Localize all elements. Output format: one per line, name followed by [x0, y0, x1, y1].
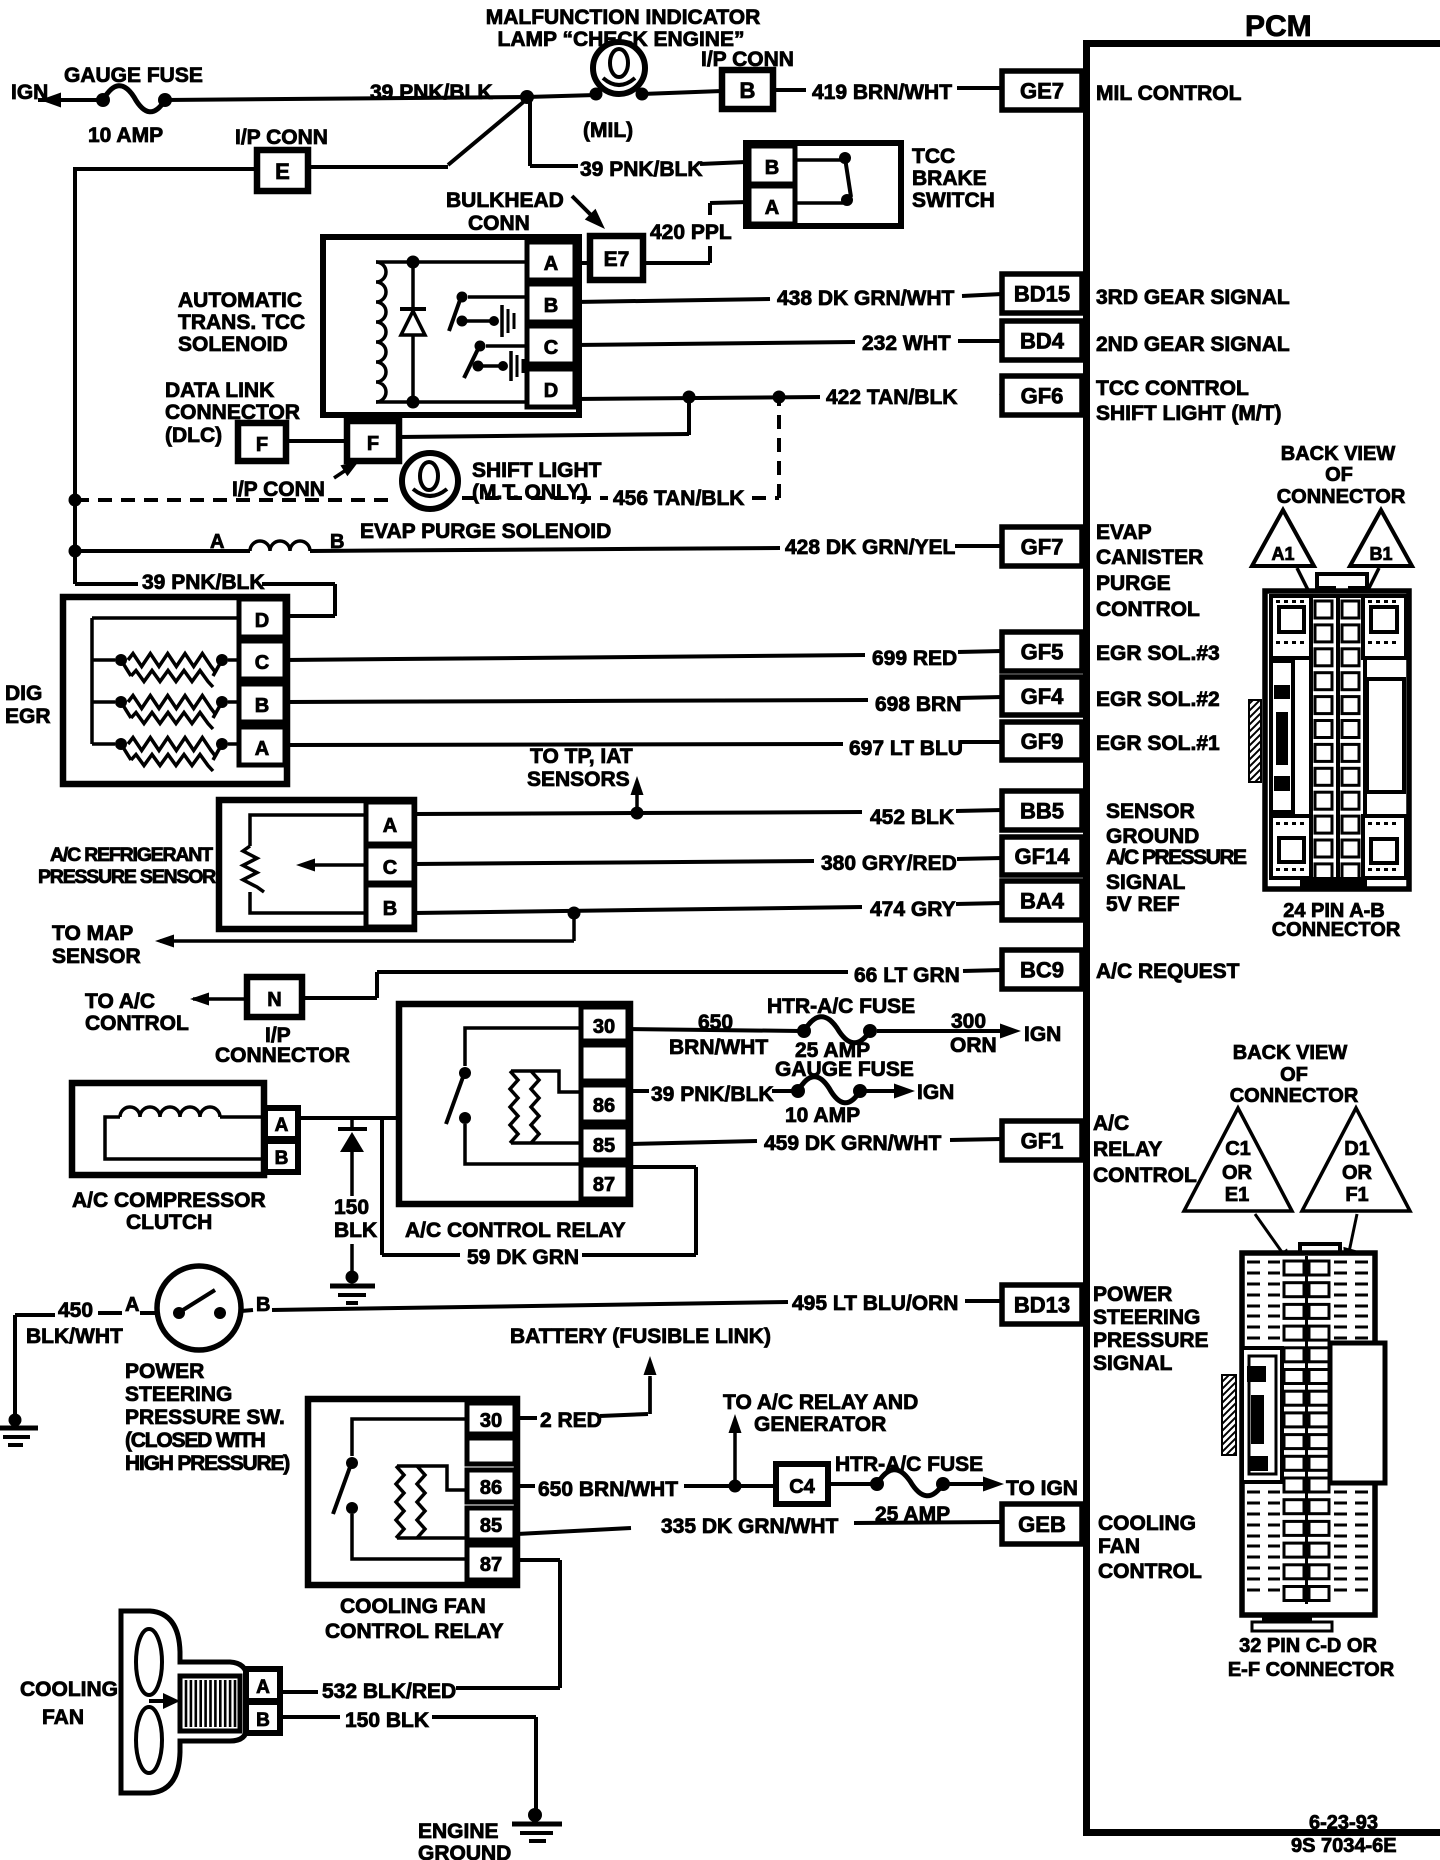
svg-text:PRESSURE SENSOR: PRESSURE SENSOR: [38, 866, 216, 888]
node junction 452 to TP IAT sensors: [631, 807, 644, 820]
svg-text:3RD GEAR SIGNAL: 3RD GEAR SIGNAL: [1096, 286, 1290, 309]
wire junction down to TCC brake switch branch: [530, 99, 578, 166]
svg-text:B: B: [275, 1148, 289, 1169]
coil solenoid winding: [376, 262, 386, 402]
svg-text:HIGH PRESSURE): HIGH PRESSURE): [125, 1452, 289, 1475]
svg-text:BD15: BD15: [1014, 282, 1070, 307]
svg-text:DATA LINK: DATA LINK: [165, 379, 274, 402]
label BULKHEAD CONN with arrow: [446, 189, 605, 235]
node junction left rail / 456 dashed: [69, 494, 82, 507]
svg-text:699 RED: 699 RED: [872, 647, 957, 670]
fuse HTR-A/C FUSE 25 AMP (second): [828, 1453, 983, 1526]
arrow to IGN (gauge fuse): [866, 1081, 954, 1104]
svg-text:F: F: [367, 433, 379, 455]
svg-text:B1: B1: [1369, 544, 1392, 564]
svg-text:335 DK GRN/WHT: 335 DK GRN/WHT: [661, 1515, 839, 1538]
diode solenoid clamp diode: [400, 262, 426, 402]
solenoid AUTOMATIC TRANS. TCC SOLENOID: [178, 237, 579, 415]
wire compressor clutch A to relay: [298, 1116, 402, 1120]
svg-text:E1: E1: [1225, 1184, 1249, 1206]
svg-text:TCC CONTROL: TCC CONTROL: [1096, 377, 1249, 400]
svg-text:I/P CONN: I/P CONN: [235, 126, 328, 149]
svg-text:GEB: GEB: [1018, 1512, 1066, 1537]
svg-text:COOLING: COOLING: [20, 1678, 118, 1701]
svg-text:A/C COMPRESSOR: A/C COMPRESSOR: [72, 1189, 266, 1212]
svg-text:30: 30: [593, 1016, 615, 1038]
diode compressor clutch diode: [334, 1118, 377, 1274]
label COOLING FAN CONTROL: [1098, 1512, 1202, 1583]
svg-text:698 BRN: 698 BRN: [875, 693, 961, 716]
node D1/F1 callout triangle: [1302, 1108, 1410, 1211]
wire 650 BRN/WHT relay 30 to HTR-A/C fuse: [628, 1011, 800, 1059]
svg-text:SHIFT LIGHT: SHIFT LIGHT: [472, 459, 602, 482]
node A1 callout triangle: [1252, 510, 1314, 566]
svg-text:TO IGN: TO IGN: [1006, 1477, 1078, 1500]
wire 650 BRN/WHT relay 86 to C4: [517, 1478, 776, 1501]
svg-text:TO MAP: TO MAP: [52, 922, 133, 945]
svg-text:BULKHEAD: BULKHEAD: [446, 189, 564, 212]
svg-text:GF6: GF6: [1021, 384, 1064, 409]
svg-text:GROUND: GROUND: [418, 1842, 511, 1860]
wire 335 DK GRN/WHT relay 85 to GEB: [517, 1515, 1002, 1538]
svg-text:A/C: A/C: [1093, 1112, 1129, 1135]
wire 495 LT BLU/ORN switch B to BD13: [241, 1292, 1002, 1315]
PCM pin GEB: [1002, 1504, 1082, 1544]
label POWER STEERING PRESSURE SIGNAL: [1093, 1283, 1209, 1375]
relay A/C CONTROL RELAY: [399, 1004, 630, 1242]
svg-text:CLUTCH: CLUTCH: [126, 1211, 212, 1234]
svg-text:B: B: [544, 295, 558, 317]
component DIG EGR assembly: [5, 597, 287, 784]
svg-text:B: B: [256, 1710, 270, 1731]
svg-text:422 TAN/BLK: 422 TAN/BLK: [826, 386, 957, 409]
svg-text:85: 85: [480, 1515, 502, 1537]
node junction 650 to A/C relay and generator: [729, 1480, 742, 1493]
svg-text:GE7: GE7: [1020, 79, 1064, 104]
svg-text:BACK VIEW: BACK VIEW: [1233, 1042, 1348, 1064]
svg-text:CANISTER: CANISTER: [1096, 546, 1203, 569]
svg-text:CONTROL RELAY: CONTROL RELAY: [325, 1620, 504, 1643]
svg-text:EVAP: EVAP: [1096, 521, 1152, 544]
svg-text:438 DK GRN/WHT: 438 DK GRN/WHT: [777, 287, 955, 310]
wire 420 PPL TCC brake switch A to E7: [643, 202, 749, 263]
PCM pin BD13: [1002, 1285, 1082, 1324]
svg-text:TO A/C: TO A/C: [85, 990, 155, 1013]
svg-text:CONNECTOR: CONNECTOR: [215, 1044, 350, 1067]
svg-text:39 PNK/BLK: 39 PNK/BLK: [370, 81, 493, 104]
fuse GAUGE FUSE 10 AMP: [64, 64, 203, 147]
svg-text:IGN: IGN: [1024, 1023, 1061, 1046]
connector E7 bulkhead: [590, 236, 643, 280]
switch cooling fan relay contacts: [333, 1419, 467, 1559]
svg-text:BC9: BC9: [1020, 958, 1064, 983]
svg-text:GROUND: GROUND: [1106, 825, 1199, 848]
motor COOLING FAN: [20, 1611, 280, 1793]
svg-text:C: C: [255, 652, 269, 674]
PCM pin GF4: [1002, 677, 1082, 715]
svg-text:GF9: GF9: [1021, 729, 1064, 754]
svg-text:39 PNK/BLK: 39 PNK/BLK: [651, 1083, 774, 1106]
switch POWER STEERING PRESSURE SW.: [125, 1266, 289, 1475]
arrow TO IGN: [949, 1477, 1078, 1501]
svg-text:SOLENOID: SOLENOID: [178, 333, 288, 356]
svg-text:A: A: [256, 1677, 270, 1698]
arrow C1 to pin C1: [1255, 1214, 1292, 1267]
solenoid EVAP PURGE coil: [75, 520, 611, 553]
wire 697 LT BLU EGR A to GF9: [285, 737, 1002, 760]
arrow TO A/C CONTROL: [85, 990, 247, 1035]
wire 459 DK GRN/WHT relay 85 to GF1: [628, 1132, 1002, 1155]
svg-text:5V REF: 5V REF: [1106, 893, 1180, 916]
label 3RD GEAR SIGNAL: [1096, 286, 1290, 309]
svg-text:474 GRY: 474 GRY: [870, 898, 956, 921]
svg-text:(CLOSED WITH: (CLOSED WITH: [125, 1429, 265, 1452]
label EGR SOL.#2: [1096, 688, 1220, 711]
PCM pin GF5: [1002, 632, 1082, 671]
wire 428 DK GRN/YEL EVAP to GF7: [310, 536, 1002, 559]
resistor sensor element: [243, 815, 366, 913]
svg-text:C4: C4: [789, 1476, 815, 1498]
svg-text:BRAKE: BRAKE: [912, 167, 987, 190]
label 2ND GEAR SIGNAL: [1096, 333, 1290, 356]
solenoid A/C COMPRESSOR CLUTCH: [72, 1083, 298, 1234]
PCM pin GF1: [1002, 1121, 1082, 1160]
svg-text:A: A: [544, 253, 558, 275]
svg-text:SIGNAL: SIGNAL: [1106, 871, 1186, 894]
svg-text:EVAP PURGE SOLENOID: EVAP PURGE SOLENOID: [360, 520, 611, 543]
svg-text:PURGE: PURGE: [1096, 572, 1171, 595]
node junction 422 wire to shift light: [683, 391, 696, 404]
svg-text:300: 300: [951, 1010, 986, 1033]
PCM pin BD15: [1002, 274, 1082, 313]
svg-text:SENSORS: SENSORS: [527, 768, 630, 791]
wire DIG EGR internal bus: [92, 618, 239, 744]
PCM pin GF14: [1002, 837, 1082, 875]
svg-text:BLK/WHT: BLK/WHT: [26, 1325, 123, 1348]
svg-text:A: A: [765, 197, 779, 219]
svg-text:F1: F1: [1345, 1184, 1368, 1206]
wire 150 BLK cooling fan B to engine ground: [282, 1709, 536, 1812]
ground ENGINE GROUND: [418, 1808, 562, 1860]
svg-text:A1: A1: [1271, 544, 1294, 564]
wire 39 PNK/BLK ignition feed: [165, 81, 527, 104]
connector I/P CONNECTOR N: [215, 977, 350, 1067]
wire 39 PNK/BLK to TCC brake switch B: [580, 158, 746, 181]
coil A/C relay winding: [510, 1071, 581, 1143]
svg-text:86: 86: [593, 1095, 615, 1117]
svg-text:GF7: GF7: [1021, 535, 1064, 560]
svg-text:SWITCH: SWITCH: [912, 189, 995, 212]
svg-text:STEERING: STEERING: [1093, 1306, 1200, 1329]
svg-text:GENERATOR: GENERATOR: [754, 1413, 886, 1436]
arrow sensor wiper: [296, 859, 366, 872]
PCM pin GF9: [1002, 722, 1082, 760]
svg-text:ORN: ORN: [950, 1034, 997, 1057]
svg-text:697 LT BLU: 697 LT BLU: [849, 737, 963, 760]
svg-text:N: N: [267, 989, 281, 1011]
node junction left rail / EVAP wire: [69, 545, 82, 558]
svg-text:(DLC): (DLC): [165, 424, 222, 447]
switch solenoid contact B with chassis ground: [449, 292, 527, 338]
svg-text:66 LT GRN: 66 LT GRN: [854, 964, 960, 987]
svg-text:10 AMP: 10 AMP: [785, 1104, 860, 1127]
label A/C RELAY CONTROL: [1093, 1112, 1197, 1187]
ground 150 BLK earth ground: [330, 1271, 375, 1304]
connector 24 pin body: [1249, 574, 1409, 890]
svg-text:32 PIN C-D OR: 32 PIN C-D OR: [1239, 1635, 1377, 1657]
svg-text:30: 30: [480, 1410, 502, 1432]
svg-text:10 AMP: 10 AMP: [88, 124, 163, 147]
wire junction to MIL lamp: [527, 95, 596, 97]
svg-text:CONTROL: CONTROL: [85, 1012, 189, 1035]
svg-text:IGN: IGN: [917, 1081, 954, 1104]
resistor pair DIG EGR solenoid A: [92, 738, 239, 772]
svg-text:BD4: BD4: [1020, 329, 1065, 354]
svg-text:6-23-93: 6-23-93: [1309, 1812, 1378, 1834]
wire 300 ORN to IGN: [877, 1010, 1061, 1057]
label SENSOR GROUND: [1106, 800, 1199, 848]
label BATTERY (FUSIBLE LINK) with arrow: [510, 1325, 771, 1414]
svg-text:B: B: [256, 1294, 270, 1316]
svg-text:A/C REQUEST: A/C REQUEST: [1096, 960, 1240, 983]
svg-text:TO TP, IAT: TO TP, IAT: [530, 745, 633, 768]
svg-text:GF14: GF14: [1014, 844, 1070, 869]
svg-text:SHIFT LIGHT (M/T): SHIFT LIGHT (M/T): [1096, 402, 1281, 425]
svg-text:CONNECTOR: CONNECTOR: [1272, 919, 1401, 941]
svg-text:BRN/WHT: BRN/WHT: [669, 1036, 768, 1059]
svg-text:C1: C1: [1225, 1138, 1251, 1160]
switch solenoid contact C with chassis ground: [464, 341, 527, 382]
svg-text:GAUGE FUSE: GAUGE FUSE: [64, 64, 203, 87]
svg-text:TCC: TCC: [912, 145, 955, 168]
PCM pin BA4: [1002, 881, 1082, 920]
wire 39 PNK/BLK left rail to DIG EGR D: [75, 571, 335, 616]
svg-text:2ND GEAR SIGNAL: 2ND GEAR SIGNAL: [1096, 333, 1290, 356]
wire 39 PNK/BLK relay 86 feed: [628, 1083, 792, 1106]
svg-text:39 PNK/BLK: 39 PNK/BLK: [580, 158, 703, 181]
svg-text:BA4: BA4: [1020, 889, 1065, 914]
svg-text:BD13: BD13: [1014, 1293, 1070, 1318]
label 5V REF: [1106, 893, 1180, 916]
svg-text:2 RED: 2 RED: [540, 1409, 602, 1432]
svg-text:E: E: [275, 159, 290, 184]
wire 380 GRY/RED sensor C to GF14: [414, 852, 1002, 875]
label EGR SOL.#3: [1096, 642, 1220, 665]
connector I/P CONN B: [701, 48, 794, 109]
svg-text:PRESSURE SW.: PRESSURE SW.: [125, 1406, 285, 1429]
svg-text:TRANS. TCC: TRANS. TCC: [178, 311, 305, 334]
wire 474 GRY sensor B to BA4: [414, 898, 1002, 921]
wire E conn to left rail: [75, 167, 257, 171]
arrow D1 to pin D1: [1343, 1214, 1357, 1266]
svg-text:87: 87: [480, 1554, 502, 1576]
relay COOLING FAN CONTROL RELAY: [308, 1399, 517, 1643]
svg-text:B: B: [255, 695, 269, 717]
svg-text:POWER: POWER: [1093, 1283, 1172, 1306]
svg-text:39 PNK/BLK: 39 PNK/BLK: [142, 571, 265, 594]
svg-text:DIG: DIG: [5, 682, 42, 705]
svg-text:AUTOMATIC: AUTOMATIC: [178, 289, 302, 312]
svg-text:86: 86: [480, 1477, 502, 1499]
wire diagonal junction to I/P conn E branch: [448, 99, 527, 165]
arrow TO TP IAT SENSORS: [527, 745, 644, 813]
svg-text:150: 150: [334, 1196, 369, 1219]
svg-text:OR: OR: [1222, 1162, 1253, 1184]
svg-text:D: D: [255, 610, 269, 632]
svg-text:428 DK GRN/YEL: 428 DK GRN/YEL: [785, 536, 956, 559]
PCM pin GF6: [1002, 376, 1082, 415]
label TCC CONTROL SHIFT LIGHT (M/T): [1096, 377, 1281, 425]
wire 2 RED relay 30 to battery: [517, 1378, 650, 1432]
svg-text:E-F CONNECTOR: E-F CONNECTOR: [1228, 1659, 1395, 1681]
wire 422 TAN/BLK solenoid D to GF6: [575, 386, 1002, 409]
node C1/E1 callout triangle: [1184, 1108, 1292, 1211]
connector I/P CONN F: [232, 421, 399, 501]
svg-text:9S 7034-6E: 9S 7034-6E: [1291, 1835, 1397, 1857]
svg-text:OF: OF: [1325, 464, 1353, 486]
svg-text:C: C: [383, 857, 397, 879]
svg-text:PRESSURE: PRESSURE: [1093, 1329, 1209, 1352]
PCM pin BD4: [1002, 321, 1082, 360]
label 32 PIN C-D OR E-F CONNECTOR: [1228, 1635, 1395, 1681]
svg-text:GF4: GF4: [1021, 684, 1065, 709]
wire I/P conn F to 422 junction: [399, 403, 689, 437]
svg-text:I/P CONN: I/P CONN: [232, 478, 325, 501]
svg-text:A/C CONTROL RELAY: A/C CONTROL RELAY: [405, 1219, 626, 1242]
lamp SHIFT LIGHT (M.T. ONLY): [402, 453, 602, 509]
svg-text:452 BLK: 452 BLK: [870, 806, 954, 829]
wire 699 RED EGR C to GF5: [285, 647, 1002, 670]
fuse GAUGE FUSE 10 AMP (second): [775, 1058, 914, 1127]
connector DATA LINK CONNECTOR F: [165, 379, 300, 461]
svg-text:59 DK GRN: 59 DK GRN: [467, 1246, 579, 1269]
svg-text:OR: OR: [1342, 1162, 1373, 1184]
node solenoid top junction: [407, 256, 420, 269]
label 24 PIN A-B CONNECTOR: [1272, 900, 1401, 941]
svg-text:A: A: [125, 1294, 139, 1316]
svg-text:TO A/C RELAY AND: TO A/C RELAY AND: [723, 1391, 918, 1414]
wire IGN to gauge fuse: [38, 98, 104, 102]
connector 32 PIN C-D E-F back view: [1230, 1042, 1359, 1107]
wire 532 BLK/RED relay 87 to cooling fan A: [282, 1560, 560, 1703]
node IGN (arrow to ignition): [11, 81, 61, 108]
svg-text:MALFUNCTION INDICATOR: MALFUNCTION INDICATOR: [486, 6, 761, 29]
svg-text:456 TAN/BLK: 456 TAN/BLK: [613, 487, 744, 510]
wire 450 BLK/WHT to ground: [15, 1299, 158, 1418]
svg-text:532 BLK/RED: 532 BLK/RED: [322, 1680, 456, 1703]
wire 419 BRN/WHT to GE7: [773, 81, 1002, 104]
svg-text:495 LT BLU/ORN: 495 LT BLU/ORN: [792, 1292, 958, 1315]
arrow B1 to pin B1: [1355, 568, 1379, 614]
label revision date: [1291, 1812, 1397, 1857]
svg-text:D1: D1: [1344, 1138, 1370, 1160]
wire 438 DK GRN/WHT solenoid B to BD15: [575, 287, 1002, 310]
svg-text:MIL CONTROL: MIL CONTROL: [1096, 82, 1242, 105]
svg-text:OF: OF: [1280, 1064, 1308, 1086]
svg-text:COOLING: COOLING: [1098, 1512, 1196, 1535]
svg-text:GAUGE FUSE: GAUGE FUSE: [775, 1058, 914, 1081]
svg-text:CONTROL: CONTROL: [1098, 1560, 1202, 1583]
svg-text:650: 650: [698, 1011, 733, 1034]
svg-text:D: D: [544, 380, 558, 402]
svg-text:420 PPL: 420 PPL: [650, 221, 732, 244]
coil cooling fan relay winding: [396, 1466, 467, 1538]
svg-text:EGR SOL.#1: EGR SOL.#1: [1096, 732, 1220, 755]
svg-text:BLK: BLK: [334, 1219, 377, 1242]
svg-text:87: 87: [593, 1174, 615, 1196]
svg-text:FAN: FAN: [42, 1706, 84, 1729]
ground 450 BLK/WHT earth ground: [0, 1414, 38, 1446]
wire MIL lamp to I/P conn B: [642, 91, 722, 94]
node solenoid bottom junction: [407, 396, 420, 409]
svg-text:BB5: BB5: [1020, 799, 1064, 824]
connector 24 PIN A-B back view: [1277, 443, 1406, 508]
svg-text:A/C PRESSURE: A/C PRESSURE: [1106, 846, 1247, 869]
svg-text:A: A: [275, 1115, 289, 1136]
connector I/P CONN E: [235, 126, 328, 191]
svg-text:(M.T. ONLY): (M.T. ONLY): [472, 481, 588, 504]
arrow TO A/C RELAY AND GENERATOR: [723, 1391, 918, 1486]
svg-text:HTR-A/C FUSE: HTR-A/C FUSE: [835, 1453, 983, 1476]
svg-text:POWER: POWER: [125, 1360, 204, 1383]
svg-text:EGR SOL.#3: EGR SOL.#3: [1096, 642, 1220, 665]
svg-text:SENSOR: SENSOR: [52, 945, 141, 968]
connector 32 pin body: [1222, 1244, 1385, 1631]
svg-text:459 DK GRN/WHT: 459 DK GRN/WHT: [764, 1132, 942, 1155]
svg-text:GF5: GF5: [1021, 640, 1064, 665]
svg-text:(MIL): (MIL): [583, 119, 633, 142]
svg-text:HTR-A/C FUSE: HTR-A/C FUSE: [767, 995, 915, 1018]
svg-text:GF1: GF1: [1021, 1129, 1064, 1154]
node junction 422 wire to 456 dashed: [773, 391, 786, 404]
svg-text:232 WHT: 232 WHT: [862, 332, 951, 355]
switch TCC BRAKE SWITCH: [746, 143, 995, 226]
svg-text:A: A: [383, 815, 397, 837]
svg-text:B: B: [765, 157, 779, 179]
lamp MIL malfunction indicator: [486, 6, 761, 142]
wire 452 BLK sensor A to BB5: [414, 806, 1002, 829]
connector C4: [776, 1464, 828, 1504]
svg-text:COOLING FAN: COOLING FAN: [340, 1595, 486, 1618]
wire 66 LT GRN to BC9: [302, 964, 1002, 998]
svg-text:BACK VIEW: BACK VIEW: [1281, 443, 1396, 465]
wire 456 TAN/BLK dashed M/T shift light feed: [75, 403, 779, 510]
PCM pin GF7: [1002, 527, 1082, 566]
svg-text:450: 450: [58, 1299, 93, 1322]
svg-text:C: C: [544, 337, 558, 359]
node junction 474 to MAP sensor: [568, 907, 581, 920]
svg-text:RELAY: RELAY: [1093, 1138, 1162, 1161]
svg-text:CONNECTOR: CONNECTOR: [1277, 486, 1406, 508]
svg-text:BATTERY (FUSIBLE LINK): BATTERY (FUSIBLE LINK): [510, 1325, 771, 1348]
wire solenoid A to E7: [575, 261, 590, 265]
wire solenoid coil bottom to pin D: [376, 400, 527, 404]
svg-text:FAN: FAN: [1098, 1535, 1140, 1558]
label EVAP CANISTER PURGE CONTROL: [1096, 521, 1203, 621]
svg-text:380 GRY/RED: 380 GRY/RED: [821, 852, 957, 875]
svg-text:STEERING: STEERING: [125, 1383, 232, 1406]
sensor A/C REFRIGERANT PRESSURE SENSOR: [38, 800, 414, 929]
svg-text:CONTROL: CONTROL: [1093, 1164, 1197, 1187]
svg-text:85: 85: [593, 1135, 615, 1157]
wire E conn to diagonal: [308, 165, 448, 169]
svg-text:PCM: PCM: [1245, 10, 1312, 43]
PCM pin BB5: [1002, 791, 1082, 830]
svg-text:EGR: EGR: [5, 705, 51, 728]
svg-text:CONTROL: CONTROL: [1096, 598, 1200, 621]
switch A/C relay contacts: [446, 1028, 581, 1164]
svg-text:B: B: [740, 78, 756, 103]
